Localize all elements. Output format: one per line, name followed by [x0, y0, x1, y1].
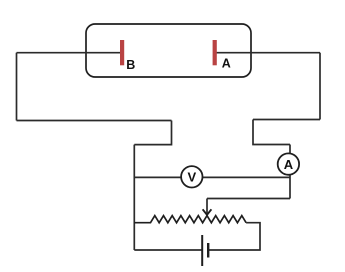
svg-text:A: A — [222, 57, 231, 71]
wire main left vertical — [133, 145, 135, 250]
wire left from electrode B to left side — [17, 52, 121, 54]
wire rheostat right lead — [209, 223, 261, 250]
wire lower-left horizontal — [17, 120, 172, 122]
svg-text:A: A — [284, 157, 294, 172]
ammeter A1 — [278, 153, 299, 174]
wire rheostat wiper branch — [207, 198, 290, 200]
wire left step down — [134, 121, 171, 145]
wire right step down — [253, 120, 290, 145]
wire right vertical — [319, 53, 321, 120]
wire bottom to battery — [134, 249, 201, 251]
electrode A — [213, 40, 217, 65]
wire right from electrode A to right side — [216, 52, 320, 54]
wire lower-right horizontal — [253, 119, 320, 121]
voltmeter V1 — [181, 166, 202, 187]
rheostat wiper arrow — [206, 199, 208, 214]
wire into ammeter — [289, 145, 291, 199]
svg-text:V: V — [187, 170, 196, 185]
battery short plate (-) — [207, 243, 209, 258]
svg-text:B: B — [126, 58, 135, 72]
discharge tube — [86, 24, 251, 77]
rheostat R1 zigzag — [134, 216, 246, 223]
wire left vertical — [16, 53, 18, 121]
electrode B — [120, 40, 124, 65]
wire voltmeter branch — [134, 176, 290, 178]
battery long plate (+) — [201, 235, 203, 266]
